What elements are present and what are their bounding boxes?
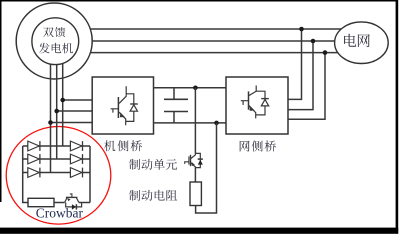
wire rotor a to machine bridge — [63, 99, 92, 101]
label 网侧桥 — [240, 141, 276, 152]
label generator label 双馈 — [43, 27, 65, 37]
label 制动电阻 — [129, 190, 177, 201]
crowbar resistor R2 — [28, 198, 54, 206]
node grid tap C — [323, 50, 328, 55]
node DC- tap — [214, 121, 219, 126]
wire DC bus negative — [154, 122, 227, 124]
wire stator phase C bus — [88, 52, 348, 54]
wire DC+ to braking unit — [194, 88, 196, 154]
grid-side bridge box U2 — [226, 77, 288, 134]
wire switch to right rail — [79, 202, 90, 204]
capacitor C1 leads — [173, 88, 175, 123]
IGBT U2 symbol — [249, 86, 256, 96]
wire rotor phase a — [50, 60, 52, 173]
wire rotor phase c — [62, 60, 64, 146]
label grid label 电网 — [344, 34, 370, 47]
braking unit IGBT Q1 — [191, 153, 196, 158]
grid source (电网) circle — [335, 22, 389, 64]
wire DC bus positive — [154, 87, 227, 89]
diode D6 — [70, 168, 81, 178]
generator G1 outer circle — [16, 3, 92, 79]
diode D5 — [28, 168, 39, 178]
diode D2 — [70, 141, 81, 151]
generator G1 inner circle — [32, 18, 79, 65]
node grid tap B — [311, 39, 316, 44]
wire crowbar row 3 — [23, 172, 90, 174]
capacitor C1 plates — [164, 99, 188, 111]
wire resistor to DC- — [196, 123, 217, 213]
wire stator phase B bus — [90, 40, 348, 42]
wire rotor b to machine bridge — [57, 110, 92, 112]
wire stator phase A bus — [88, 28, 348, 30]
braking resistor R1 — [190, 182, 201, 206]
wire rotor c to machine bridge — [51, 122, 93, 124]
crowbar switch antiparallel diode D7 — [66, 203, 82, 207]
node rotor tap b — [54, 109, 59, 114]
diode D4 — [70, 154, 81, 164]
wire braking unit to resistor — [194, 168, 196, 182]
wire grid bridge phase B — [288, 41, 313, 110]
node rotor tap c — [48, 120, 53, 125]
label 机侧桥 — [104, 140, 142, 151]
svg-text:Crowbar: Crowbar — [36, 206, 84, 221]
wire resistor to crowbar switch — [54, 202, 65, 204]
diode D3 — [28, 154, 39, 164]
machine-side bridge box U1 — [92, 77, 153, 134]
wire rotor phase b — [56, 60, 58, 159]
wire crowbar left rail — [23, 146, 28, 203]
diode D1 — [28, 141, 39, 151]
node grid tap A — [299, 27, 304, 32]
IGBT U1 symbol — [119, 86, 126, 103]
wire crowbar row 2 — [23, 158, 90, 160]
wire crowbar right rail — [89, 146, 91, 203]
wire crowbar row 1 — [23, 145, 90, 147]
crowbar highlight ellipse — [6, 127, 111, 225]
crowbar switch Q2 — [66, 196, 78, 198]
node DC+ tap — [193, 86, 198, 91]
node rotor tap a — [60, 98, 65, 103]
wire grid bridge phase C — [288, 53, 325, 120]
label 制动单元 — [129, 159, 177, 170]
wire grid bridge phase A — [288, 29, 302, 99]
label generator label 发电机 — [39, 43, 73, 54]
